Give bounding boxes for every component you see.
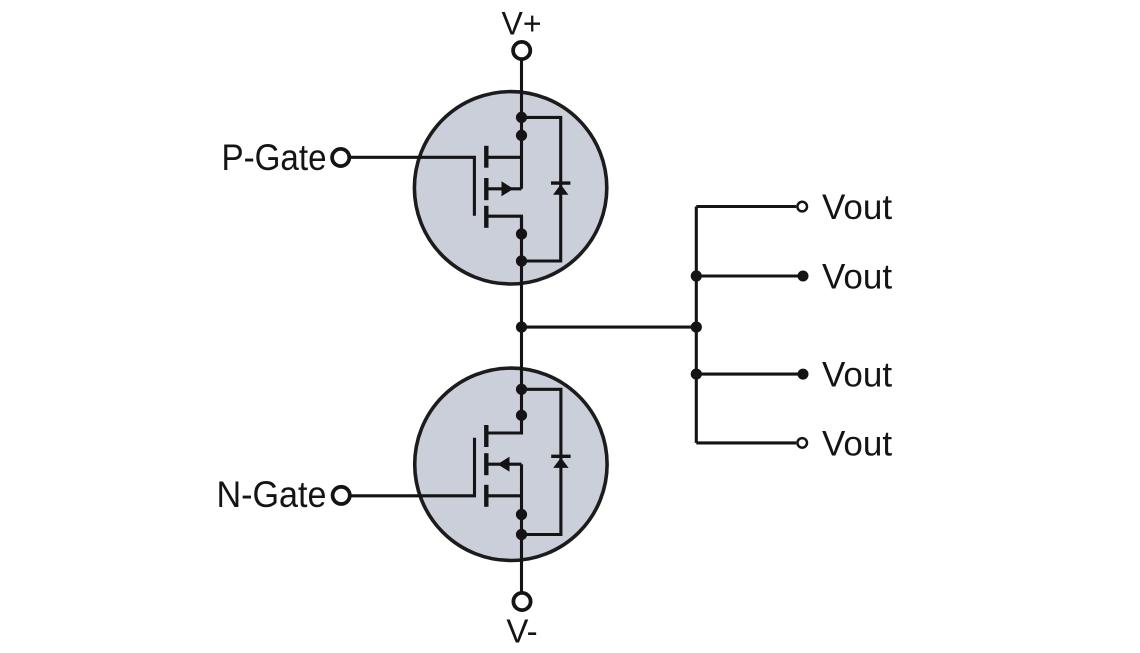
node A junction dot [516,322,527,333]
transistor Q2 body circle (N-MOSFET) [415,368,607,560]
pin dot Q2 source [516,509,527,520]
terminal P-Gate [332,149,349,166]
terminal Vout 1 (open) [797,202,807,212]
svg-text:Vout: Vout [822,356,892,395]
svg-text:V-: V- [506,613,537,650]
transistor Q1 channel bar top (drain) [484,146,488,168]
junction dot Q2 drain/diode top [516,384,527,395]
terminal N-Gate [333,487,350,504]
diode D2 triangle [553,458,568,468]
terminal V+ [513,42,530,59]
svg-text:Vout: Vout [822,425,892,464]
terminal V- [513,593,530,610]
terminal Vout 4 (open) [797,438,807,448]
wire N-Gate to Q2 gate [350,438,475,496]
wire output bus vertical [695,207,698,443]
junction dot Q2 source/diode bottom [516,529,527,540]
transistor Q2 body arrow (points left, N-channel) [498,457,510,472]
svg-text:N-Gate: N-Gate [217,474,327,515]
wire diode D2 branch [522,389,561,534]
transistor Q1 body circle (P-MOSFET) [414,92,606,284]
wire Vout branch 1 [696,205,796,208]
wire diode D1 branch [522,117,561,261]
wire Q1 body stub [486,187,521,190]
svg-text:P-Gate: P-Gate [222,137,327,178]
svg-text:V+: V+ [501,6,541,42]
wire Q1 source stub [486,216,521,234]
wire Vout branch 3 [696,373,801,376]
wire Q1 source to node A [520,216,523,327]
terminal Vout 2 (filled) [798,271,809,282]
transistor Q1 body arrow (points right, P-channel) [502,181,514,196]
wire Q2 source stub [486,494,521,497]
wire Vout branch 2 [696,274,801,277]
junction dot bus/branch 2 [691,270,702,281]
pin dot Q1 source [516,228,527,239]
diode D1 cathode bar [551,181,570,184]
svg-text:Vout: Vout [822,188,892,227]
diode D1 triangle [553,184,568,194]
wire node A to output bus [522,326,697,329]
wire Vout branch 4 [696,441,796,444]
wire node A to Q2 drain [486,327,521,433]
wire Q2 body/source to V- [520,464,523,593]
terminal Vout 3 (filled) [798,369,809,380]
wire P-Gate to Q1 gate [349,157,474,216]
transistor Q2 channel bar top (drain) [484,425,488,447]
wire Q2 body stub [486,463,521,466]
transistor Q1 channel bar middle (body) [484,178,488,200]
junction dot Q1 source/diode bottom [516,255,527,266]
pin dot Q1 drain [516,130,527,141]
wire V+ to Q1 drain [520,59,523,189]
diode D2 cathode bar [551,455,570,458]
junction dot Q1 drain/diode top [516,112,527,123]
svg-text:Vout: Vout [822,258,892,297]
transistor Q2 channel bar bottom (source) [484,485,488,507]
pin dot Q2 drain [516,410,527,421]
junction dot bus/node A [691,322,702,333]
transistor Q2 channel bar middle (body) [484,453,488,475]
junction dot bus/branch 3 [691,369,702,380]
wire Q1 drain stub [486,156,521,159]
transistor Q1 channel bar bottom (source) [484,206,488,228]
